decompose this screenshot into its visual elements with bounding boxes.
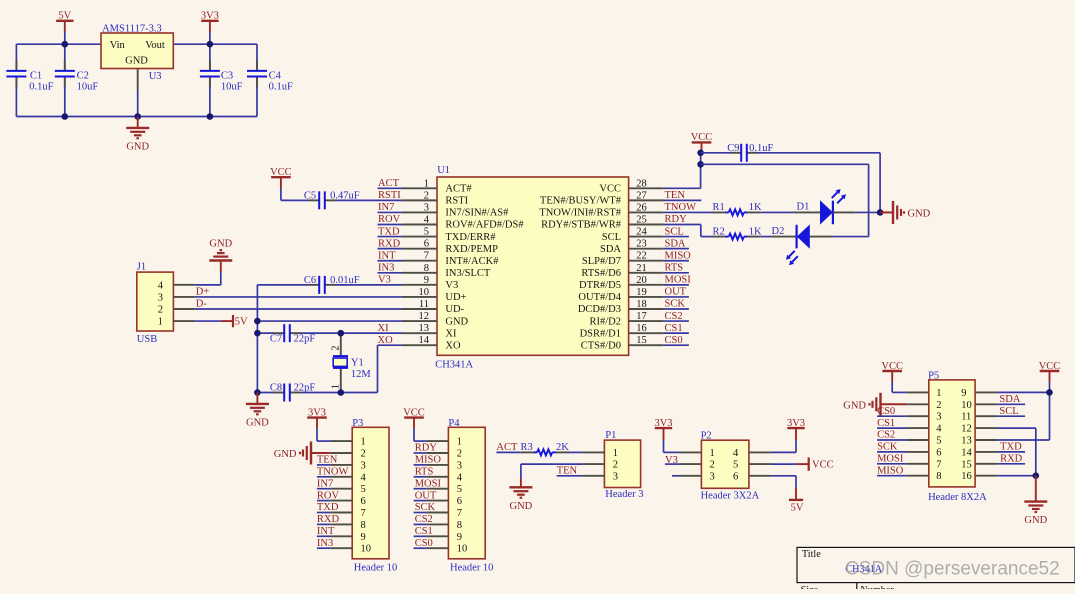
svg-text:OUT: OUT: [415, 490, 437, 501]
P5 pin 16 stub: [975, 475, 997, 477]
wire net CS1 P5: [877, 427, 907, 429]
svg-text:MISO: MISO: [877, 465, 904, 476]
ground symbol left of P3 pin2: [311, 452, 330, 454]
wire net TEN P3: [317, 464, 330, 466]
svg-text:R3: R3: [521, 442, 533, 453]
svg-text:6: 6: [361, 496, 366, 507]
op-amp U1 CH341A body: [437, 177, 629, 355]
svg-text:SDA: SDA: [665, 238, 686, 249]
U1 pin 27 stub: [629, 199, 664, 201]
svg-text:P2: P2: [701, 431, 712, 442]
svg-text:9: 9: [961, 388, 966, 399]
svg-text:23: 23: [636, 239, 647, 250]
P2 pin 5 stub: [749, 463, 771, 465]
U1 pin 23 stub: [629, 248, 664, 250]
U1 pin 4 stub: [402, 224, 437, 226]
wire left bus vertical: [256, 285, 258, 393]
svg-text:2: 2: [457, 449, 462, 460]
capacitor C1: [15, 44, 17, 71]
U1 pin 26 stub: [629, 211, 664, 213]
svg-text:XO: XO: [378, 335, 394, 346]
wire net SCL: [664, 236, 689, 238]
wire SDA: [997, 403, 1025, 405]
svg-text:D2: D2: [772, 226, 785, 237]
wire net TEN: [664, 199, 702, 201]
svg-text:7: 7: [424, 251, 429, 262]
junction crystal XI: [338, 330, 345, 337]
svg-text:CS1: CS1: [415, 526, 433, 537]
svg-text:DSR#/D1: DSR#/D1: [580, 328, 621, 339]
svg-text:RDY: RDY: [415, 443, 438, 454]
svg-text:7: 7: [936, 459, 941, 470]
svg-text:2: 2: [424, 190, 429, 201]
power symbol VCC (C5): [271, 176, 291, 178]
svg-text:GND: GND: [510, 501, 533, 512]
junction bottom rail at U3 GND: [134, 113, 141, 120]
svg-text:RDY: RDY: [665, 214, 688, 225]
svg-text:IN3: IN3: [317, 538, 333, 549]
wire VCC down right: [1049, 382, 1051, 441]
capacitor C9: [731, 152, 741, 154]
wire R3 to P1 pin1: [569, 451, 582, 453]
svg-text:TXD/ERR#: TXD/ERR#: [445, 232, 496, 243]
P4 pin 7 stub: [426, 512, 448, 514]
ground symbol left of P5 pin2: [881, 403, 907, 405]
resistor R2 1K: [712, 236, 725, 238]
wire P5 pin12 to GND: [997, 427, 1036, 429]
svg-text:Title: Title: [802, 549, 821, 560]
wire P2 pin3 stub: [672, 475, 679, 477]
svg-text:Header 3X2A: Header 3X2A: [701, 491, 760, 502]
svg-text:GND: GND: [209, 238, 232, 249]
P3 pin 1 stub: [330, 440, 352, 442]
svg-text:1: 1: [710, 448, 715, 459]
wire top rail left: [16, 43, 101, 45]
svg-text:25: 25: [636, 215, 647, 226]
connector P4 body: [448, 427, 485, 559]
svg-text:J1: J1: [137, 262, 146, 273]
wire net IN3: [378, 272, 403, 274]
svg-text:RXD/PEMP: RXD/PEMP: [445, 244, 498, 255]
svg-text:P4: P4: [448, 418, 460, 429]
U1 pin 17 stub: [629, 320, 664, 322]
svg-text:SDA: SDA: [999, 394, 1020, 405]
svg-text:U1: U1: [437, 165, 450, 176]
wire net MOSI P4: [414, 488, 427, 490]
wire net IN3 P3: [317, 547, 330, 549]
P5 pin 1 stub: [907, 391, 929, 393]
wire C9 to GND drop: [758, 152, 881, 154]
wire VCC junction vertical: [700, 151, 702, 189]
svg-text:TEN: TEN: [557, 466, 578, 477]
wire net RXD P3: [317, 523, 330, 525]
svg-text:Number: Number: [860, 585, 894, 589]
svg-text:MISO: MISO: [665, 250, 692, 261]
wire net IN7 P3: [317, 488, 330, 490]
svg-text:Y1: Y1: [351, 358, 364, 369]
crystal Y1 12M: [340, 333, 342, 356]
svg-text:SCK: SCK: [665, 299, 686, 310]
J1 pin 3 stub: [173, 296, 194, 298]
svg-text:16: 16: [961, 471, 972, 482]
svg-text:CS2: CS2: [665, 311, 683, 322]
P4 pin 8 stub: [426, 523, 448, 525]
P4 pin 10 stub: [426, 547, 448, 549]
svg-text:USB: USB: [137, 334, 157, 345]
svg-text:VCC: VCC: [812, 460, 834, 471]
svg-text:CS0: CS0: [415, 538, 433, 549]
svg-text:D+: D+: [196, 287, 210, 298]
svg-text:4: 4: [361, 472, 367, 483]
svg-text:INT: INT: [378, 250, 396, 261]
svg-text:VCC: VCC: [881, 361, 903, 372]
power symbol 5V: [56, 20, 73, 22]
svg-text:14: 14: [961, 447, 972, 458]
svg-text:3V3: 3V3: [654, 418, 672, 429]
U1 pin 20 stub: [629, 284, 664, 286]
P5 pin 13 stub: [975, 439, 997, 441]
P4 pin 5 stub: [426, 488, 448, 490]
svg-text:27: 27: [636, 190, 647, 201]
P4 pin 6 stub: [426, 500, 448, 502]
P5 pin 4 stub: [907, 427, 929, 429]
svg-text:6: 6: [457, 496, 462, 507]
ground symbol below U3: [137, 117, 139, 128]
wire net CS0: [664, 344, 689, 346]
U1 pin 8 stub: [402, 272, 437, 274]
svg-text:22pF: 22pF: [294, 382, 316, 393]
svg-text:CS1: CS1: [665, 323, 683, 334]
svg-text:12: 12: [419, 311, 430, 322]
svg-text:17: 17: [636, 311, 647, 322]
svg-text:UD-: UD-: [445, 304, 464, 315]
wire P2 pin4 to 3V3: [771, 451, 796, 453]
svg-text:2: 2: [710, 460, 715, 471]
svg-text:C8: C8: [270, 382, 282, 393]
wire net CS0 P5: [877, 415, 907, 417]
P3 pin 8 stub: [330, 523, 352, 525]
svg-text:RTS: RTS: [665, 262, 684, 273]
wire VCC to D2 drop: [701, 163, 869, 165]
svg-text:IN7/SIN#/AS#: IN7/SIN#/AS#: [445, 208, 509, 219]
P5 pin 5 stub: [907, 439, 929, 441]
svg-text:AMS1117-3.3: AMS1117-3.3: [102, 23, 162, 34]
svg-text:1: 1: [361, 437, 366, 448]
svg-text:15: 15: [961, 459, 972, 470]
U1 pin 5 stub: [402, 236, 437, 238]
wire net CS1 P4: [414, 535, 427, 537]
svg-text:MOSI: MOSI: [665, 275, 692, 286]
svg-text:GND: GND: [908, 208, 931, 219]
svg-text:SCK: SCK: [415, 502, 436, 513]
U1 pin 13 stub: [402, 332, 437, 334]
connector P3 body: [352, 427, 389, 559]
wire net SCK P4: [414, 512, 427, 514]
svg-text:Header 3: Header 3: [605, 489, 643, 500]
svg-text:SCK: SCK: [877, 442, 898, 453]
P3 pin 10 stub: [330, 547, 352, 549]
svg-text:1: 1: [457, 437, 462, 448]
svg-text:RXD: RXD: [378, 238, 401, 249]
svg-text:CH341A: CH341A: [435, 359, 473, 370]
svg-text:12: 12: [961, 424, 972, 435]
svg-text:U3: U3: [149, 71, 162, 82]
svg-text:24: 24: [636, 227, 647, 238]
svg-text:1: 1: [158, 317, 163, 328]
P5 pin 11 stub: [975, 415, 997, 417]
ground symbol below bus: [256, 393, 258, 404]
P3 pin 9 stub: [330, 535, 352, 537]
wire top rail right: [173, 43, 257, 45]
power symbol 5V (P2, down): [795, 488, 797, 500]
U1 pin 3 stub: [402, 211, 437, 213]
svg-text:CTS#/D0: CTS#/D0: [581, 340, 621, 351]
wire P5 pin16: [997, 475, 1036, 477]
ground symbol right of D1: [880, 211, 893, 213]
U1 pin 2 stub: [402, 199, 437, 201]
wire net TXD P3: [317, 512, 330, 514]
svg-text:VCC: VCC: [599, 184, 621, 195]
svg-text:1: 1: [936, 388, 941, 399]
svg-text:V3: V3: [378, 275, 391, 286]
svg-text:RXD: RXD: [1000, 454, 1023, 465]
svg-text:UD+: UD+: [445, 292, 466, 303]
resistor R3 2K: [520, 451, 533, 453]
svg-text:XI: XI: [445, 328, 457, 339]
U1 pin 18 stub: [629, 308, 664, 310]
P3 pin 4 stub: [330, 476, 352, 478]
power symbol 5V flag: [221, 320, 232, 322]
power symbol 3V3 (P2 right): [787, 427, 804, 429]
power symbol 3V3 (P3): [307, 416, 327, 418]
svg-text:C1: C1: [30, 70, 42, 81]
svg-text:8: 8: [457, 520, 462, 531]
P3 pin 7 stub: [330, 512, 352, 514]
svg-text:RSTI: RSTI: [445, 196, 468, 207]
junction D1 GND: [877, 209, 884, 216]
svg-text:5V: 5V: [791, 502, 804, 513]
junction bus pin12: [254, 318, 261, 325]
junction bus XI: [254, 330, 261, 337]
svg-text:8: 8: [361, 520, 366, 531]
LED D2: [771, 236, 796, 238]
power symbol 3V3: [201, 20, 218, 22]
svg-text:VCC: VCC: [1039, 361, 1061, 372]
svg-text:19: 19: [636, 287, 647, 298]
svg-text:13: 13: [961, 436, 972, 447]
wire D2 to VCC drop: [833, 236, 869, 238]
wire J1 pin4 to GND: [195, 284, 221, 286]
svg-text:SCL: SCL: [602, 232, 621, 243]
svg-text:3V3: 3V3: [201, 11, 219, 22]
svg-text:6: 6: [733, 471, 738, 482]
junction top rail at C3: [207, 41, 214, 48]
wire net SDA: [664, 248, 689, 250]
svg-text:OUT#/D4: OUT#/D4: [578, 292, 621, 303]
svg-text:2: 2: [331, 346, 342, 351]
svg-text:SCL: SCL: [665, 226, 684, 237]
svg-text:3: 3: [457, 460, 462, 471]
svg-text:1K: 1K: [749, 226, 762, 237]
P1 pin 3 stub: [582, 475, 604, 477]
wire C5 to U1 RSTI: [336, 199, 403, 201]
P2 pin 3 stub: [679, 475, 701, 477]
svg-text:TXD: TXD: [317, 502, 339, 513]
svg-text:ROV: ROV: [317, 490, 340, 501]
svg-text:GND: GND: [445, 316, 468, 327]
wire XO row: [378, 344, 403, 346]
svg-text:3: 3: [361, 460, 366, 471]
wire net MISO P5: [877, 475, 907, 477]
wire R2 to D2: [761, 236, 772, 238]
svg-text:10: 10: [457, 544, 468, 555]
wire net RTS P4: [414, 476, 427, 478]
svg-text:DCD#/D3: DCD#/D3: [578, 304, 621, 315]
svg-text:TEN: TEN: [317, 455, 338, 466]
svg-text:12M: 12M: [351, 369, 372, 380]
svg-text:SDA: SDA: [600, 244, 621, 255]
wire RXD: [997, 463, 1025, 465]
svg-text:GND: GND: [274, 449, 297, 460]
ground symbol below P5: [1035, 476, 1037, 502]
svg-text:ACT: ACT: [378, 178, 400, 189]
junction crystal C8: [338, 389, 345, 396]
wire net SCK: [664, 308, 689, 310]
connector P2 body: [701, 440, 749, 488]
svg-text:4: 4: [936, 424, 942, 435]
wire net ROV: [378, 224, 403, 226]
wire net MISO P4: [414, 464, 427, 466]
svg-text:ROV#/AFD#/DS#: ROV#/AFD#/DS#: [445, 220, 524, 231]
wire TXD: [997, 451, 1025, 453]
svg-text:TNOW: TNOW: [317, 467, 349, 478]
svg-text:5V: 5V: [58, 11, 71, 22]
wire net SCK P5: [877, 451, 907, 453]
P4 pin 9 stub: [426, 535, 448, 537]
svg-text:21: 21: [636, 263, 647, 274]
svg-text:IN3/SLCT: IN3/SLCT: [445, 268, 491, 279]
connector J1 USB: [137, 272, 174, 331]
connector P5 body: [929, 380, 975, 487]
U1 pin 14 stub: [402, 344, 437, 346]
svg-text:C2: C2: [77, 70, 89, 81]
svg-text:10: 10: [361, 544, 372, 555]
svg-text:MISO: MISO: [415, 455, 442, 466]
wire U1 GND pin12 to bus: [257, 320, 402, 322]
U1 pin 16 stub: [629, 332, 664, 334]
svg-text:5: 5: [457, 484, 462, 495]
svg-text:26: 26: [636, 202, 647, 213]
U1 pin 22 stub: [629, 260, 664, 262]
P5 pin 14 stub: [975, 451, 997, 453]
capacitor C7: [274, 332, 284, 334]
regulator U3 AMS1117-3.3: [101, 33, 173, 69]
svg-text:P5: P5: [928, 371, 939, 382]
svg-text:CS0: CS0: [877, 406, 895, 417]
svg-text:TNOW: TNOW: [665, 202, 697, 213]
svg-text:C7: C7: [270, 334, 282, 345]
svg-text:2K: 2K: [556, 442, 569, 453]
P3 pin 2 stub: [330, 452, 352, 454]
junction bus C8: [254, 389, 261, 396]
U1 pin 24 stub: [629, 236, 664, 238]
svg-text:16: 16: [636, 323, 647, 334]
P5 pin 15 stub: [975, 463, 997, 465]
wire U3 GND pin: [137, 69, 139, 91]
svg-text:9: 9: [424, 275, 429, 286]
P4 pin 1 stub: [426, 440, 448, 442]
capacitor C2: [64, 44, 66, 71]
U1 pin 12 stub: [402, 320, 437, 322]
svg-text:RSTI: RSTI: [378, 190, 401, 201]
svg-text:XO: XO: [445, 340, 461, 351]
svg-text:CS1: CS1: [877, 418, 895, 429]
wire R1 to D1: [761, 211, 794, 213]
ground symbol above J1 (inverted): [220, 261, 222, 273]
svg-text:SCL: SCL: [999, 406, 1018, 417]
svg-text:11: 11: [961, 412, 971, 423]
svg-text:C9: C9: [727, 143, 739, 154]
title block: [797, 547, 1075, 589]
svg-text:4: 4: [457, 472, 463, 483]
P5 pin 10 stub: [975, 403, 997, 405]
svg-text:4: 4: [158, 280, 164, 291]
LED D2 arrows: [789, 251, 795, 257]
wire net ACT: [378, 187, 403, 189]
svg-text:ACT#: ACT#: [445, 184, 472, 195]
P3 pin 6 stub: [330, 500, 352, 502]
junction VCC C9: [697, 150, 704, 157]
svg-text:GND: GND: [246, 417, 269, 428]
wire net TNOW P3: [317, 476, 330, 478]
svg-text:C3: C3: [221, 70, 233, 81]
capacitor C6: [309, 284, 319, 286]
wire RDY step to R2: [664, 224, 701, 226]
P5 pin 6 stub: [907, 451, 929, 453]
power symbol VCC flag (P2): [797, 463, 809, 465]
U1 pin 9 stub: [402, 284, 437, 286]
svg-text:RTS#/D6: RTS#/D6: [581, 268, 621, 279]
svg-text:IN7: IN7: [378, 202, 394, 213]
power symbol 3V3 (P2 left): [655, 427, 672, 429]
P5 pin 9 stub: [975, 391, 997, 393]
svg-text:13: 13: [419, 323, 430, 334]
J1 pin 2 stub: [173, 308, 194, 310]
LED D1 arrows: [832, 192, 838, 198]
U1 pin 10 stub: [402, 296, 437, 298]
svg-text:GND: GND: [843, 400, 866, 411]
svg-text:TEN: TEN: [665, 190, 686, 201]
connector P1 body: [604, 440, 640, 487]
svg-text:15: 15: [636, 335, 647, 346]
svg-text:CS2: CS2: [877, 430, 895, 441]
P2 pin 2 stub: [679, 463, 701, 465]
P5 pin 3 stub: [907, 415, 929, 417]
U1 pin 6 stub: [402, 248, 437, 250]
svg-text:V3: V3: [445, 280, 458, 291]
wire net CS2 P5: [877, 439, 907, 441]
svg-text:INT#/ACK#: INT#/ACK#: [445, 256, 499, 267]
P5 pin 7 stub: [907, 463, 929, 465]
wire net OUT: [664, 296, 689, 298]
capacitor C4: [256, 44, 258, 71]
junction VCC wireB: [697, 161, 704, 168]
junction bottom rail at C2: [62, 113, 69, 120]
svg-text:Header 8X2A: Header 8X2A: [928, 492, 987, 503]
U1 pin 15 stub: [629, 344, 664, 346]
svg-text:C5: C5: [304, 190, 316, 201]
svg-text:GND: GND: [125, 56, 148, 67]
